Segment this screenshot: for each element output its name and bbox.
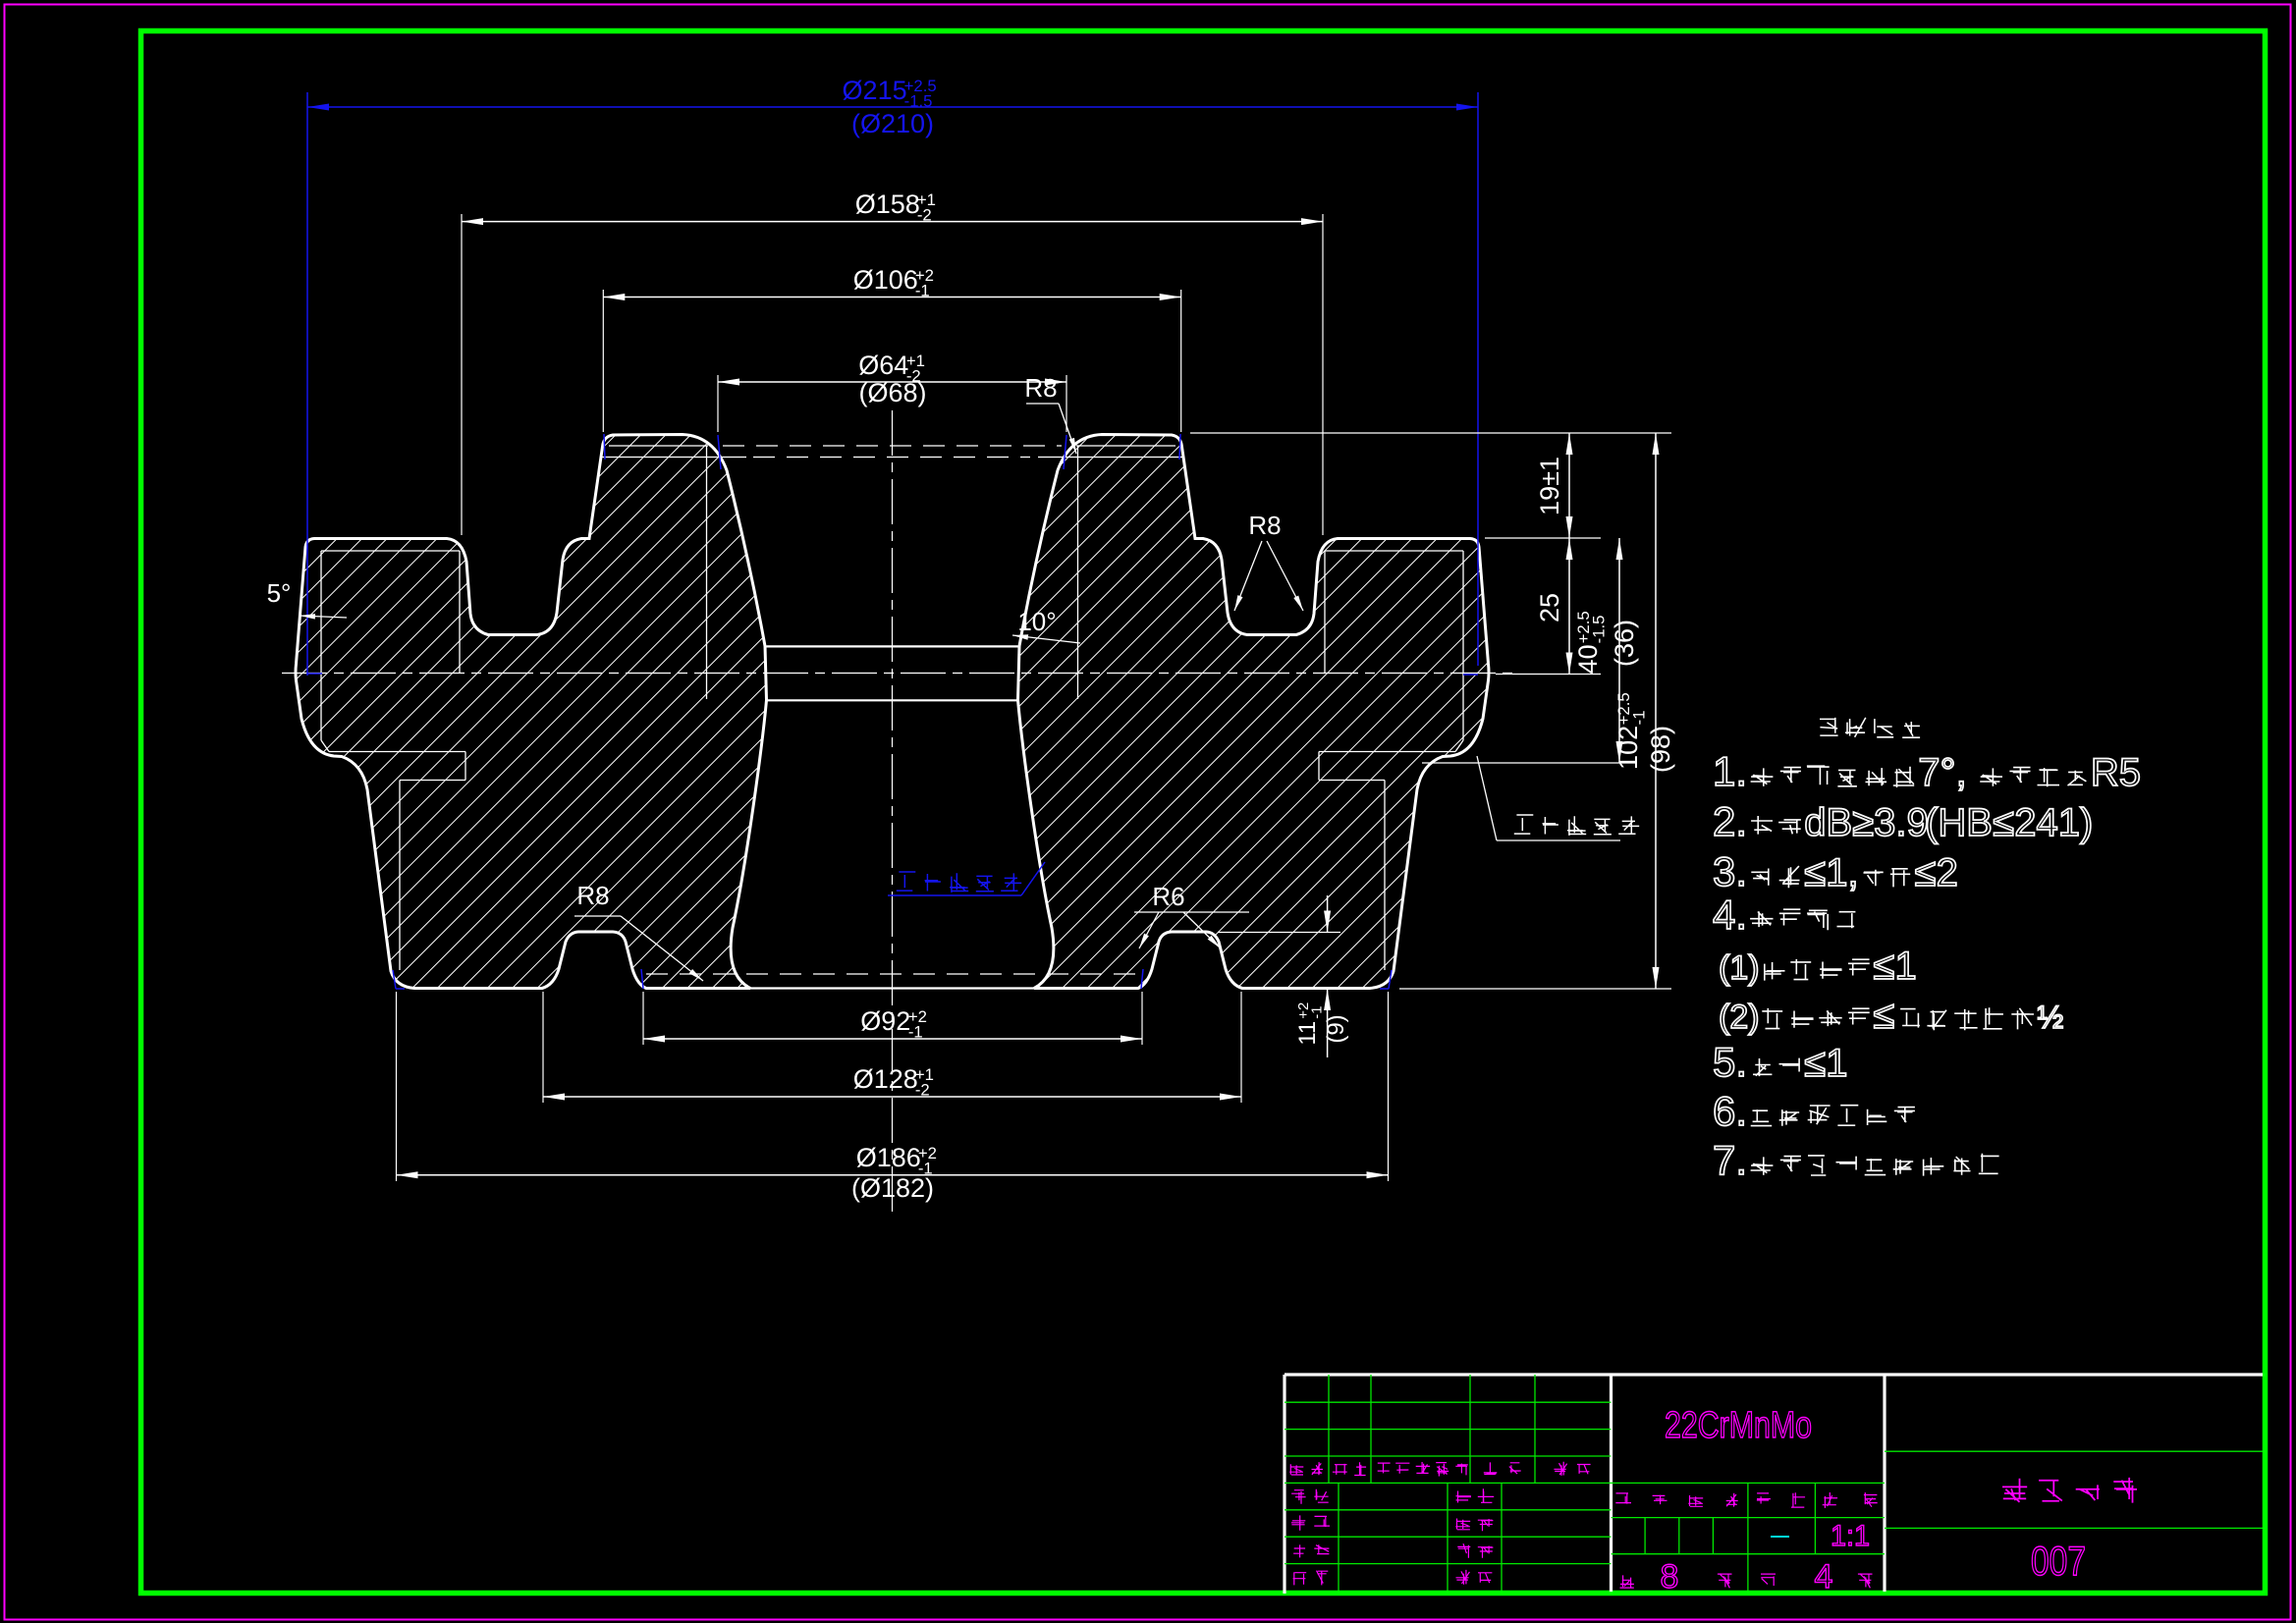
svg-text:1.: 1. (1713, 748, 1747, 794)
extension line ledge (40) (1422, 762, 1635, 764)
label jiaoyufenmoxian white (1514, 815, 1534, 834)
svg-text:(9): (9) (1323, 1014, 1349, 1043)
blue tick dia92 right (1141, 969, 1143, 989)
svg-text:3.: 3. (1713, 848, 1747, 894)
left half-section outline (296, 435, 767, 989)
svg-text:(36): (36) (1610, 620, 1639, 667)
svg-text:1:1: 1:1 (1831, 1520, 1870, 1552)
svg-text:≤: ≤ (1804, 1042, 1826, 1085)
svg-text:22CrMnMo: 22CrMnMo (1665, 1405, 1812, 1446)
svg-text:(Ø182): (Ø182) (851, 1173, 934, 1203)
blue corner tick dia64 right (1064, 435, 1066, 469)
part name san si su lun (2002, 1479, 2027, 1502)
dimension 25 (1568, 538, 1570, 675)
svg-text:7.: 7. (1713, 1137, 1747, 1183)
machined rim contour left (321, 550, 460, 552)
dimension dia92 (643, 1038, 1142, 1040)
left half-section hatch fill (296, 435, 767, 989)
svg-text:≤: ≤ (1993, 801, 2014, 844)
revision table header labels (1289, 1464, 1303, 1475)
blue corner tick dia106 right (1179, 434, 1180, 460)
machined rim contour right (1325, 550, 1463, 552)
svg-text:1: 1 (1826, 1042, 1847, 1085)
vertical centerline (axis) (892, 410, 894, 1217)
svg-text:2: 2 (1937, 851, 1958, 894)
svg-text:R8: R8 (1248, 511, 1281, 540)
dimension 19+-1 (1568, 433, 1570, 538)
right section green lines (1885, 1450, 2263, 1452)
right half-section hatch fill (1018, 435, 1490, 989)
svg-text:7°: 7° (1918, 751, 1955, 794)
weight dash cyan (1771, 1536, 1789, 1538)
dimension 40 (36) (1618, 538, 1620, 763)
extension line rim top (1485, 537, 1601, 539)
svg-text:≤: ≤ (1873, 994, 1894, 1037)
svg-text:(HB: (HB (1925, 801, 1993, 844)
svg-text:25: 25 (1535, 593, 1564, 622)
extension line groove depth (1218, 932, 1340, 934)
blue tick dia92 left (641, 969, 643, 989)
svg-text:≤: ≤ (1804, 851, 1826, 894)
svg-text:R6: R6 (1152, 882, 1184, 911)
svg-text:1,: 1, (1826, 851, 1858, 894)
svg-text:2.: 2. (1713, 798, 1747, 844)
svg-text:(98): (98) (1646, 726, 1675, 773)
svg-text:007: 007 (2031, 1538, 2086, 1584)
dimension 102 (98) (1655, 433, 1657, 989)
svg-text:½: ½ (2037, 1000, 2063, 1035)
parting line (chain) (282, 673, 1512, 675)
title block outer white border (1285, 1373, 2263, 1376)
blue corner tick dia106 left (604, 434, 605, 460)
blue tick bottom-left corner (396, 988, 405, 990)
svg-text:,: , (1956, 751, 1967, 794)
sheet count row (1620, 1575, 1634, 1588)
stamp header labels (1615, 1493, 1631, 1504)
svg-text:241): 241) (2014, 801, 2093, 844)
signature labels left (1291, 1490, 1306, 1504)
dimension dia128 (543, 1096, 1241, 1098)
signature labels middle (1456, 1491, 1472, 1503)
svg-text:(1): (1) (1719, 949, 1760, 987)
revision table green lines (1285, 1401, 1612, 1403)
dimension 11 (9) groove depth (1327, 989, 1329, 1057)
bottom face visible edge across bore (750, 987, 1034, 989)
dimension dia186 (397, 1174, 1389, 1176)
blue corner tick dia64 left (718, 435, 721, 469)
svg-text:R5: R5 (2091, 751, 2141, 794)
svg-text:8: 8 (1661, 1558, 1679, 1596)
dimension dia106 (603, 297, 1180, 298)
svg-text:1: 1 (1894, 945, 1916, 988)
svg-text:5.: 5. (1713, 1039, 1747, 1085)
machined hub contour right tower (1076, 445, 1175, 447)
svg-text:(Ø210): (Ø210) (851, 109, 934, 138)
extension line bottom (1399, 988, 1671, 990)
title block divider 2 (1883, 1375, 1886, 1592)
svg-text:(2): (2) (1719, 999, 1760, 1036)
hidden machined hub top line (723, 445, 1062, 447)
label jiaoyufenmoxian blue (897, 872, 916, 891)
svg-text:6.: 6. (1713, 1088, 1747, 1134)
svg-text:≤: ≤ (1915, 851, 1937, 894)
signature table green lines (1285, 1509, 1612, 1511)
dimension dia64 (718, 381, 1066, 383)
hidden machined line 2 (753, 457, 1030, 459)
hidden machined bottom line (646, 973, 1139, 975)
title block divider 1 (1610, 1375, 1613, 1592)
extension line parting (25) (1496, 674, 1601, 676)
svg-text:R8: R8 (576, 881, 609, 910)
machined hub contour left tower (609, 445, 708, 447)
extension line hub top (1190, 432, 1671, 434)
svg-text:19±1: 19±1 (1535, 457, 1564, 515)
blue tick bottom-right corner (1389, 970, 1392, 989)
dimension dia215 (blue) (307, 106, 1478, 108)
svg-text:10°: 10° (1017, 607, 1056, 636)
tech requirements title (1820, 718, 1838, 735)
svg-text:(Ø68): (Ø68) (858, 378, 926, 407)
svg-text:dB≥3.9: dB≥3.9 (1804, 801, 1928, 844)
svg-text:11+2-1: 11+2-1 (1294, 1002, 1326, 1046)
svg-text:R8: R8 (1024, 373, 1057, 403)
svg-text:4: 4 (1815, 1558, 1833, 1596)
middle section green lines (1612, 1482, 1886, 1484)
web bottom edge (767, 699, 1018, 701)
dimension dia158 (462, 221, 1323, 223)
svg-text:4.: 4. (1713, 892, 1747, 938)
right half-section outline (1018, 435, 1490, 989)
svg-text:≤: ≤ (1873, 945, 1894, 988)
web top edge (767, 645, 1018, 647)
svg-text:5°: 5° (267, 578, 292, 608)
